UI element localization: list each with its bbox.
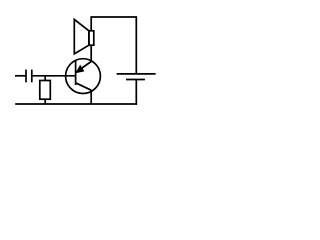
battery B1 [117,74,156,80]
wire emitter to loudspeaker [90,45,92,61]
wire base wire from capacitor to transistor base [32,75,76,77]
wire right side lower [135,80,137,105]
wire right side upper [135,16,137,74]
wire top rail [90,16,136,18]
wire loudspeaker to top rail [90,17,92,31]
wire resistor top lead [44,76,46,81]
resistor R1 [40,81,51,100]
wire input lead [15,75,26,77]
wire bottom rail [15,103,137,105]
capacitor C1 [26,70,32,83]
loudspeaker LS1 [74,19,94,54]
transistor Q1 (PNP) [66,59,101,94]
wire collector to bottom rail [90,90,92,104]
wire resistor bottom lead [44,99,46,104]
